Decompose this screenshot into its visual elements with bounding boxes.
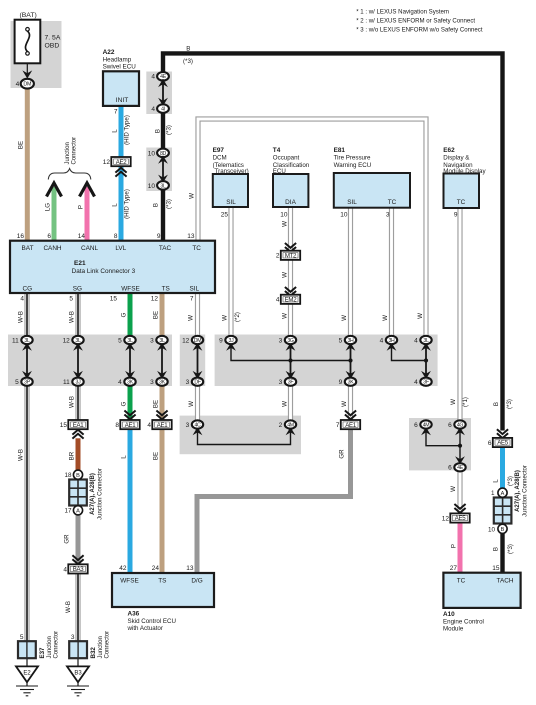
svg-text:DIA: DIA <box>285 199 296 206</box>
svg-text:W: W <box>282 272 289 278</box>
svg-text:OBD: OBD <box>45 43 60 50</box>
wire W-B E21 CG to 3L <box>24 293 29 337</box>
svg-text:4: 4 <box>147 422 151 429</box>
wire W-B BA3 to B32 <box>75 574 80 643</box>
svg-text:D/G: D/G <box>191 578 202 585</box>
svg-text:TAC: TAC <box>159 245 172 252</box>
svg-text:5: 5 <box>118 337 122 344</box>
connector 3 4C <box>186 420 204 435</box>
svg-text:BA3: BA3 <box>73 566 85 573</box>
label A27 A28 junction connector right <box>515 465 529 517</box>
svg-text:LVL: LVL <box>115 245 126 252</box>
svg-text:L: L <box>112 129 119 133</box>
ground E2 <box>16 666 38 695</box>
svg-text:B: B <box>186 46 190 53</box>
svg-text:3K: 3K <box>348 380 355 386</box>
wire label L at 114.5,131 <box>112 129 119 133</box>
connector 10 8D <box>148 149 169 158</box>
fuse block background panel <box>11 21 62 88</box>
wire label BE at 155.5,404 <box>153 400 160 408</box>
connectors 4 3L / 4 3F <box>414 336 432 386</box>
svg-text:10: 10 <box>488 526 496 533</box>
svg-text:W: W <box>189 193 196 199</box>
wire label GR at 341.5,454 <box>339 449 346 459</box>
wire label W at 224.5,318 <box>222 315 229 321</box>
svg-text:(*3): (*3) <box>507 476 514 486</box>
svg-text:DF: DF <box>194 380 200 386</box>
svg-text:W-B: W-B <box>65 601 72 613</box>
svg-text:W: W <box>282 221 289 227</box>
svg-text:4: 4 <box>151 106 155 113</box>
svg-text:MT2: MT2 <box>285 253 297 260</box>
ECU E97 DCM Telematics Transceiver <box>213 147 249 219</box>
svg-text:(*3): (*3) <box>166 125 173 135</box>
wire label B at 155.5,205 <box>153 203 160 207</box>
svg-text:4: 4 <box>63 566 67 573</box>
ECU A10 Engine Control Module <box>443 565 521 632</box>
svg-text:3: 3 <box>279 379 283 386</box>
svg-text:E21: E21 <box>74 260 86 267</box>
svg-text:3K: 3K <box>159 380 166 386</box>
connectors 5 3H / 9 3K <box>339 336 357 386</box>
svg-text:TC: TC <box>457 578 466 585</box>
svg-text:AE5: AE5 <box>497 440 509 447</box>
wire GR AE1 to A36 D/G <box>197 429 351 575</box>
svg-text:W: W <box>282 401 289 407</box>
wire label G at 123.5,315 <box>121 312 128 317</box>
svg-text:(BAT): (BAT) <box>20 12 37 19</box>
ECU A36 Skid Control ECU with Actuator <box>112 565 214 632</box>
wire label W at 420,316 <box>417 313 424 319</box>
svg-text:W-B: W-B <box>69 311 76 323</box>
svg-text:B: B <box>501 527 505 533</box>
svg-text:13: 13 <box>187 233 195 240</box>
svg-text:5: 5 <box>69 296 73 303</box>
TC bus 3H to 3L column <box>392 344 427 361</box>
junction band left background <box>8 335 172 387</box>
ECU A22 Headlamp Swivel ECU <box>103 49 139 116</box>
connector 6 4G <box>448 420 466 435</box>
svg-text:10: 10 <box>148 150 156 157</box>
svg-text:W-B: W-B <box>18 311 25 323</box>
svg-text:L: L <box>112 203 119 207</box>
svg-text:3: 3 <box>71 634 75 641</box>
inline connector 4 AE1 <box>147 420 171 429</box>
wire BE fuse DM to E21 BAT <box>25 88 30 242</box>
junction connector brace <box>48 169 91 180</box>
svg-text:15: 15 <box>492 565 500 572</box>
svg-text:14: 14 <box>78 233 86 240</box>
svg-text:BE: BE <box>153 452 160 460</box>
svg-text:Module Display: Module Display <box>443 168 486 175</box>
inline connector 7 AE1 <box>336 420 360 429</box>
svg-text:10: 10 <box>148 183 156 190</box>
svg-text:A27(A), A28(B): A27(A), A28(B) <box>515 470 521 512</box>
wire BE E21 TS to 3L <box>160 293 165 337</box>
wire label W at 385,318 <box>382 315 389 321</box>
chevron into AE2 <box>115 168 126 177</box>
svg-text:AE1: AE1 <box>345 422 357 429</box>
svg-text:Warning ECU: Warning ECU <box>334 162 372 169</box>
wire label W at 453,402 <box>450 399 457 405</box>
svg-text:Junction Connector: Junction Connector <box>98 468 104 520</box>
wire label W-B at 71.5,402 <box>69 396 76 408</box>
svg-text:4: 4 <box>276 297 280 304</box>
wire BR EA1 to junction B <box>76 438 81 470</box>
svg-text:T4: T4 <box>273 147 281 154</box>
wire label GR at 66.5,539 <box>64 534 71 544</box>
svg-text:Connector: Connector <box>105 631 111 659</box>
wire label L at 114.5,205 <box>112 203 119 207</box>
connector 9 3J <box>219 336 237 351</box>
svg-text:SG: SG <box>73 285 82 292</box>
wire L A22 to AE2 <box>119 106 124 158</box>
ECU E21 Data Link Connector 3 <box>10 241 215 293</box>
connector 6 4M <box>414 420 432 435</box>
svg-text:BE: BE <box>153 400 160 408</box>
svg-text:E62: E62 <box>443 147 455 154</box>
svg-text:LG: LG <box>45 203 52 211</box>
svg-text:Junction: Junction <box>47 636 53 658</box>
wire label (*1) at 465,402 <box>462 397 469 407</box>
connectors 5 3L / 4 3K <box>118 336 136 386</box>
svg-text:P: P <box>78 205 85 209</box>
wire W DF to 4C <box>195 385 200 422</box>
svg-text:(*3): (*3) <box>507 544 514 554</box>
arrow CANL continuation <box>80 183 95 197</box>
svg-text:(*3): (*3) <box>183 58 193 65</box>
svg-text:A10: A10 <box>443 611 455 618</box>
wire B 3L to E21 TAC <box>161 189 165 242</box>
wire label (*3) at 510,481 <box>507 476 514 486</box>
svg-text:A22: A22 <box>103 49 115 56</box>
junction connector A27(A) A28(B) left grid <box>69 480 87 506</box>
svg-text:7. 5A: 7. 5A <box>45 35 61 42</box>
wire label W at 190.5,318 <box>188 315 195 321</box>
svg-text:WFSE: WFSE <box>120 578 138 585</box>
svg-text:3: 3 <box>186 379 190 386</box>
svg-text:W: W <box>188 401 195 407</box>
svg-text:G: G <box>121 312 128 317</box>
connectors 11 3L / 5 3P <box>12 336 33 386</box>
arrow CANH continuation <box>47 183 62 197</box>
arrowhead into DM <box>22 70 32 78</box>
SIL bus 3J to 3H column <box>231 344 351 361</box>
svg-text:CANH: CANH <box>43 245 61 252</box>
svg-text:W: W <box>450 486 457 492</box>
svg-text:7: 7 <box>336 422 340 429</box>
wire label W-B at 68,607 <box>65 601 72 613</box>
inline connector 12 AE2 <box>103 157 131 166</box>
svg-text:CG: CG <box>23 285 33 292</box>
svg-text:4: 4 <box>16 81 20 88</box>
svg-text:W: W <box>222 315 229 321</box>
connector 17 A <box>64 506 82 515</box>
junction band right background <box>215 335 438 387</box>
connector 10 B <box>488 524 507 533</box>
svg-text:3: 3 <box>386 212 390 219</box>
connector 18 B <box>64 470 82 479</box>
svg-text:E97: E97 <box>213 147 225 154</box>
svg-text:4G: 4G <box>457 422 464 428</box>
svg-text:3: 3 <box>150 337 154 344</box>
svg-text:CANL: CANL <box>81 245 98 252</box>
svg-text:* 1 : w/ LEXUS Navigation Syst: * 1 : w/ LEXUS Navigation System <box>356 9 449 16</box>
wire label BE at 20.5,145 <box>18 141 25 149</box>
junction connector A27(A) A28(B) right grid <box>494 498 512 524</box>
wire W 3F to 4M <box>288 385 293 422</box>
svg-text:GR: GR <box>339 449 346 459</box>
svg-text:10: 10 <box>340 212 348 219</box>
svg-text:4: 4 <box>20 296 24 303</box>
junction dot at 4G-4E <box>458 444 462 448</box>
svg-text:3: 3 <box>186 422 190 429</box>
label A27 A28 junction connector left <box>90 468 104 520</box>
svg-text:TS: TS <box>158 578 166 585</box>
svg-text:Occupant: Occupant <box>273 154 300 161</box>
link 4G to 4E <box>459 428 461 464</box>
wire L AE1 to A36 WFSE <box>128 429 133 575</box>
svg-text:DM: DM <box>23 82 32 88</box>
svg-text:GR: GR <box>64 534 71 544</box>
svg-text:15: 15 <box>60 422 68 429</box>
wire W-B 3P to E37 <box>24 385 29 642</box>
svg-text:W: W <box>341 401 348 407</box>
chevron into BA3 <box>72 555 83 564</box>
svg-text:6: 6 <box>448 465 452 472</box>
svg-text:E81: E81 <box>334 147 346 154</box>
svg-text:3F: 3F <box>423 380 429 386</box>
connector 1 A <box>491 488 507 497</box>
svg-text:TS: TS <box>162 285 170 292</box>
wire B 4I to 8D <box>161 112 165 149</box>
svg-text:3K: 3K <box>127 380 134 386</box>
svg-text:TACH: TACH <box>497 578 514 585</box>
wire W E62 TC to 4G <box>457 208 462 422</box>
svg-text:SIL: SIL <box>347 199 357 206</box>
svg-text:3L: 3L <box>127 338 133 344</box>
svg-text:4M: 4M <box>287 422 294 428</box>
wire label W at 284.5,275 <box>282 272 289 278</box>
inline connector 2 MT2 <box>276 251 300 260</box>
wire label (*3) at 168.5,204 <box>166 199 173 209</box>
inline connector 4 EM2 <box>276 295 300 304</box>
ground B3 <box>67 666 89 695</box>
svg-text:11: 11 <box>12 337 19 344</box>
svg-text:3J: 3J <box>76 380 82 386</box>
wire label W-B at 20.5,317 <box>18 311 25 323</box>
chevron into AE1 (8) <box>124 411 135 420</box>
junction box 4M-4G-4E background <box>409 418 471 470</box>
svg-text:BE: BE <box>153 311 160 319</box>
svg-text:7: 7 <box>114 109 118 116</box>
label junction connector (brace) <box>65 137 78 165</box>
svg-text:42: 42 <box>119 565 127 572</box>
svg-text:4: 4 <box>151 74 155 81</box>
svg-text:B: B <box>76 473 80 479</box>
wire G 3K to AE1 <box>128 385 133 421</box>
svg-text:4C: 4C <box>194 422 201 428</box>
wire label W at 344,318 <box>341 315 348 321</box>
svg-text:Skid Control ECU: Skid Control ECU <box>128 618 177 625</box>
svg-text:WFSE: WFSE <box>121 285 139 292</box>
wire L AE2 to E21 LVL <box>119 166 124 242</box>
svg-text:4: 4 <box>414 379 418 386</box>
svg-text:B: B <box>493 402 500 406</box>
svg-text:12: 12 <box>151 296 159 303</box>
svg-text:W: W <box>382 315 389 321</box>
label B32 junction connector <box>90 631 111 659</box>
arrows 8D-3L <box>158 156 168 183</box>
wire label L at 495.5,481 <box>493 479 500 483</box>
svg-text:12: 12 <box>103 159 111 166</box>
chevron into AE5 (6) <box>497 429 508 438</box>
svg-text:3: 3 <box>279 337 283 344</box>
svg-text:3L: 3L <box>160 183 166 189</box>
svg-text:B: B <box>493 547 500 551</box>
wire W EM2 to 3G <box>288 304 293 338</box>
wire label L at 123.5,457 <box>121 455 128 459</box>
svg-text:4: 4 <box>380 337 384 344</box>
wire label P at 80.5,207 <box>78 205 85 209</box>
connectors 3 3G / 3 3F <box>279 336 297 386</box>
wire W 4E to AE5 <box>457 471 462 515</box>
junction connector E37 <box>18 634 36 658</box>
svg-text:6: 6 <box>414 422 418 429</box>
svg-text:8: 8 <box>115 422 119 429</box>
svg-text:25: 25 <box>221 212 229 219</box>
svg-text:Module: Module <box>443 625 464 632</box>
svg-text:3J: 3J <box>229 338 235 344</box>
wire label (*3) at 509,404 <box>506 399 513 409</box>
svg-text:11: 11 <box>63 379 70 386</box>
svg-text:(*2): (*2) <box>234 312 241 322</box>
wire W E21 TC up-and-over to 3L <box>198 119 426 337</box>
svg-text:7: 7 <box>190 296 194 303</box>
connector strip 8D-3L background <box>146 148 172 192</box>
svg-text:12: 12 <box>63 337 71 344</box>
chevron into MT2 <box>285 243 296 252</box>
ECU E62 Display and Navigation Module Display <box>443 147 486 219</box>
svg-text:3H: 3H <box>347 338 354 344</box>
wire label LG at 47.5,207 <box>45 203 52 211</box>
wire B junction B to A10 TACH <box>500 534 504 575</box>
svg-text:3G: 3G <box>287 338 294 344</box>
connectors 12 3L / 11 3J <box>63 336 84 386</box>
svg-text:12: 12 <box>442 515 450 522</box>
fuse 7.5A OBD <box>15 12 61 63</box>
svg-text:27: 27 <box>450 565 458 572</box>
svg-text:Connector: Connector <box>54 631 60 659</box>
svg-text:Connector: Connector <box>72 137 78 165</box>
jumper 4C to 4M <box>198 428 291 445</box>
svg-text:4: 4 <box>414 337 418 344</box>
svg-text:12: 12 <box>182 337 190 344</box>
svg-text:24: 24 <box>152 565 160 572</box>
svg-text:4E: 4E <box>160 74 167 80</box>
svg-text:TC: TC <box>457 199 466 206</box>
svg-text:8: 8 <box>114 233 118 240</box>
svg-text:3L: 3L <box>24 338 30 344</box>
svg-text:B3: B3 <box>74 671 82 677</box>
wire label B at 496,404 <box>493 402 500 406</box>
wire label BE at 155.5,315 <box>153 311 160 319</box>
svg-text:3H: 3H <box>388 338 395 344</box>
wire B32 to ground B3 <box>77 658 79 666</box>
wire fuse to DM connector <box>26 63 28 74</box>
svg-text:* 2 : w/ LEXUS ENFORM or Safet: * 2 : w/ LEXUS ENFORM or Safety Connect <box>356 18 475 25</box>
wire W E81 TC to 3H <box>389 208 394 337</box>
wire label (*3) at 168.5,130 <box>166 125 173 135</box>
svg-text:EM2: EM2 <box>285 297 298 304</box>
wire label W-B at 20.5,455 <box>18 449 25 461</box>
svg-text:EA1: EA1 <box>73 422 85 429</box>
wire label P at 453.5,546 <box>451 544 458 548</box>
svg-text:AE1: AE1 <box>157 422 169 429</box>
svg-text:SIL: SIL <box>190 285 200 292</box>
wire label W at 284.5,224 <box>282 221 289 227</box>
E21 bottom pin numbers <box>20 296 194 303</box>
svg-text:B32: B32 <box>90 647 97 659</box>
inline connector 4 BA3 <box>63 564 87 573</box>
svg-text:(HID Type): (HID Type) <box>124 189 131 219</box>
legend note 1 <box>356 9 449 16</box>
connectors 12 DM / 3 DF <box>182 336 203 386</box>
svg-text:W-B: W-B <box>69 396 76 408</box>
svg-text:5: 5 <box>15 379 19 386</box>
chevron into EM2 <box>285 287 296 296</box>
svg-text:9: 9 <box>339 379 343 386</box>
svg-text:6: 6 <box>448 422 452 429</box>
svg-text:6: 6 <box>488 440 492 447</box>
svg-text:4E: 4E <box>457 465 464 471</box>
junction dot SIL bus at 3G-3F <box>288 358 292 362</box>
svg-text:G: G <box>121 401 128 406</box>
junction strip DM-DF background <box>180 335 205 387</box>
svg-text:13: 13 <box>186 565 194 572</box>
connector 10 3L <box>148 181 169 190</box>
svg-text:W: W <box>282 313 289 319</box>
wire label (*3) at 510,549 <box>507 544 514 554</box>
svg-text:9: 9 <box>157 233 161 240</box>
svg-text:BAT: BAT <box>22 245 34 252</box>
svg-text:Transceiver): Transceiver) <box>215 168 249 175</box>
svg-text:W: W <box>417 313 424 319</box>
legend note 3 <box>356 27 483 34</box>
svg-text:9: 9 <box>219 337 223 344</box>
wire BE 3K to AE1 <box>160 385 165 421</box>
wire L AE5 to junction A <box>500 447 505 489</box>
inline connector 12 AE5 <box>442 513 470 522</box>
svg-text:B: B <box>153 203 160 207</box>
wire E37 to ground E2 <box>26 658 28 666</box>
wire label (HID Type) at 126.5,204 <box>124 189 131 219</box>
wire label B at 157.3,131 <box>154 129 161 133</box>
wire W T4 DIA to MT2 <box>288 207 293 251</box>
svg-text:3L: 3L <box>159 338 165 344</box>
svg-text:4M: 4M <box>423 422 430 428</box>
svg-text:B: B <box>154 129 161 133</box>
svg-text:AE2: AE2 <box>116 159 128 166</box>
wire W 3K to AE1 (7) <box>348 385 353 421</box>
wire P AE5 to A10 TC <box>458 522 463 574</box>
svg-text:AE1: AE1 <box>125 422 137 429</box>
svg-text:Junction Connector: Junction Connector <box>523 465 529 517</box>
svg-text:(*3): (*3) <box>166 199 173 209</box>
svg-text:3: 3 <box>150 379 154 386</box>
wire label BR at 71.5,456 <box>69 451 76 460</box>
wire label B top corner <box>186 46 190 53</box>
